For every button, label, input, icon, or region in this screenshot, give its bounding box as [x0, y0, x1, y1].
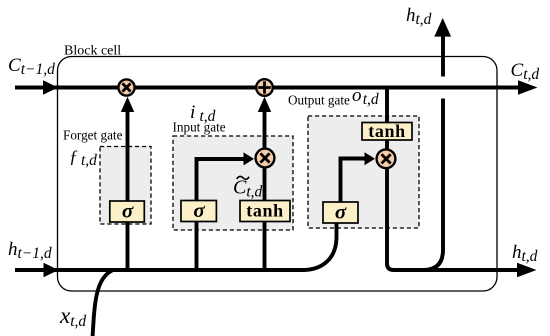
svg-text:σ: σ	[335, 200, 347, 224]
svg-text:Block cell: Block cell	[64, 44, 121, 59]
svg-text:i: i	[190, 102, 195, 123]
svg-text:tanh: tanh	[368, 121, 405, 141]
svg-text:Forget gate: Forget gate	[63, 127, 123, 142]
svg-text:Output gate: Output gate	[288, 93, 350, 108]
svg-text:tanh: tanh	[246, 201, 283, 221]
svg-text:σ: σ	[193, 198, 205, 222]
svg-text:t,d: t,d	[200, 108, 216, 125]
svg-text:t,d: t,d	[81, 152, 97, 169]
svg-text:ƒ: ƒ	[69, 147, 78, 167]
svg-text:σ: σ	[122, 199, 134, 223]
